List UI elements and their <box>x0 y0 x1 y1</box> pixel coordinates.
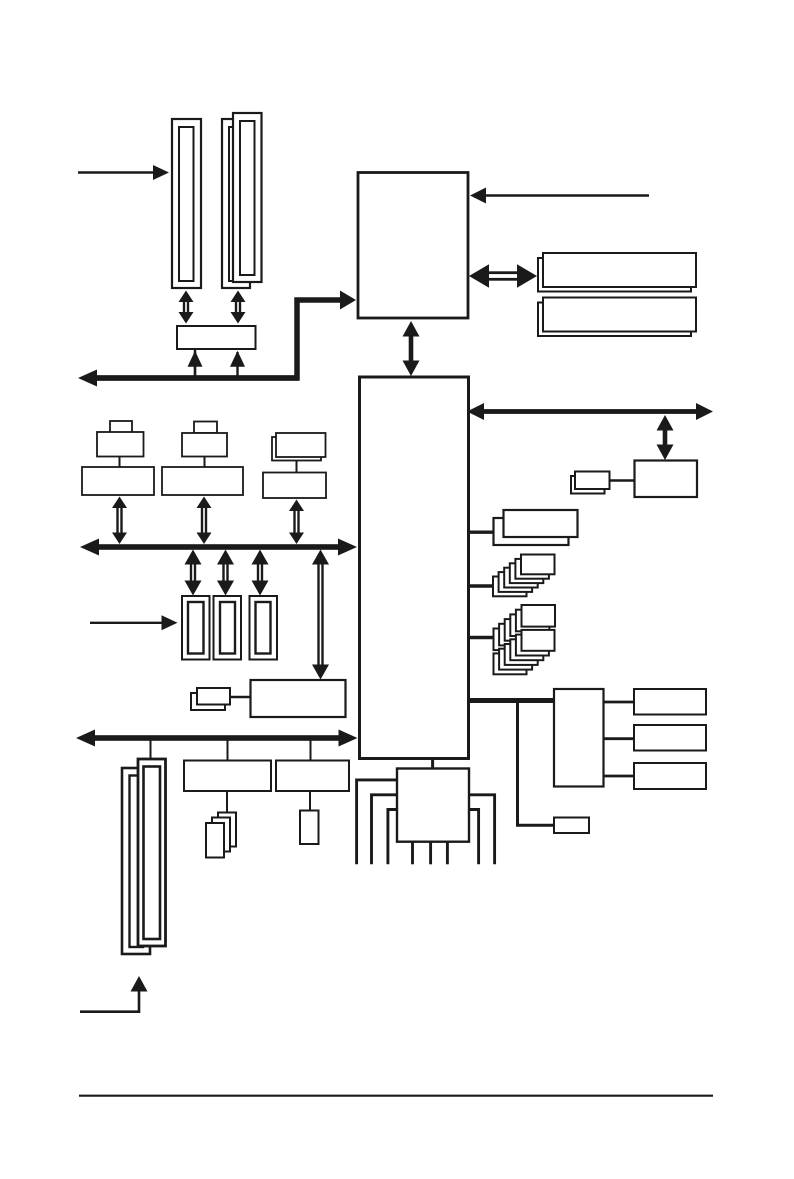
wire: LPC box to right box R3 <box>604 775 636 778</box>
pin leg: super-IO left arm 1 <box>357 780 398 864</box>
box: memory bank 2 <box>543 298 696 332</box>
slot: bottom slot back outer <box>122 768 150 954</box>
arrow: bus1 up to bridge box left (single head) <box>194 352 196 376</box>
arrow: bus2 down to wide box (long double-headed) <box>317 564 323 666</box>
arrow: memory slot 2 to bridge box (double-headed) <box>235 301 241 313</box>
box: memory bank 1 shadow <box>538 258 691 292</box>
box: group3 top <box>276 433 326 457</box>
box: LPC controller (tall narrow box) <box>554 689 604 787</box>
box: memory bank 2 shadow <box>538 303 691 337</box>
box: stack A back <box>494 518 569 545</box>
box: group1 bottom <box>82 467 154 495</box>
pin leg: super-IO bottom pin 2 <box>429 842 432 865</box>
box: wide box below PCI slots <box>251 680 346 717</box>
slot: PCI slot 2 outer <box>214 596 242 660</box>
wire: stem box2 to small connector box <box>309 790 311 811</box>
box: BIOS small box <box>554 818 589 834</box>
box: card stack under box1 - front <box>206 823 224 858</box>
wire: stem bus3 to bottom box2 <box>310 740 312 761</box>
box: small connector under box2 <box>300 811 319 845</box>
box: stack A front <box>504 510 578 537</box>
arrow: CPU to chipset (solid double-headed) <box>409 335 414 363</box>
wire: stem chipset to stack C <box>469 636 495 639</box>
arrow: memory slot 1 to bridge box (double-headed) <box>183 301 189 313</box>
box: memory bridge box below slots <box>177 326 256 349</box>
box: right box R2 <box>634 725 706 751</box>
pin leg: super-IO left arm 3 <box>388 810 398 865</box>
wire: stem chipset to stack A <box>469 531 495 534</box>
slot: PCI slot 1 inner <box>188 602 204 654</box>
wire: stem chipset bottom to super-IO box <box>431 758 434 769</box>
slot: memory slot 2 back inner <box>229 127 244 281</box>
slot: PCI slot 3 outer <box>250 596 278 660</box>
slot: bottom slot front inner <box>144 767 161 940</box>
wire: stem bus3 to bottom box1 <box>227 740 229 761</box>
box: bottom box2 on bus3 <box>276 761 349 792</box>
wire: branch from thick link down to BIOS box <box>518 701 555 825</box>
slot: memory slot 2 front inner <box>240 121 255 275</box>
bus wire: lower peripheral bus (double arrow both ends) <box>92 735 342 741</box>
box: card stack under box1 - back <box>218 813 236 847</box>
box: card stack under box1 - middle <box>212 818 230 852</box>
arrow: bus1 up to bridge box right (single head) <box>236 352 238 376</box>
box: connector pair behind wide box - front <box>197 688 230 705</box>
box: group2 notch <box>194 422 217 434</box>
arrow: bus2 to PCI slot 1 (double-headed) <box>190 564 196 582</box>
bus arrowhead: local bus left end <box>92 375 298 380</box>
arrow: group2 to bus2 (double-headed) <box>201 507 207 534</box>
pin leg: super-IO bottom pin 1 <box>411 842 414 865</box>
box: super-IO chip <box>397 769 469 842</box>
slot: PCI slot 3 inner <box>256 602 271 654</box>
box: group1 top <box>97 432 144 457</box>
pin leg: super-IO left arm 2 <box>372 795 399 865</box>
slot: memory slot 1 outer <box>172 119 201 288</box>
wire: stem bus1 to memory-bridge box left <box>194 349 196 376</box>
bus wire: right-side bus from chipset (double arrow both ends) <box>483 409 697 414</box>
arrow: input arrow to CPU box right side (thin, pointing left) <box>484 194 649 196</box>
wire: connector pair to network box <box>608 479 635 481</box>
box: group3 top shadow <box>272 437 321 461</box>
arrow: bottom elbow pointing up at slot group <box>80 991 139 1012</box>
bus wire: host bus elbow from local bus up into CPU box <box>95 300 341 378</box>
box: network controller box under bus4 <box>635 461 698 498</box>
box: connector pair at network box - back <box>571 476 605 494</box>
arrow: bus4 to network box (solid double-headed) <box>663 429 668 447</box>
slot: bottom slot back inner <box>130 776 144 948</box>
wire: stem bus3 to bottom slot group <box>150 740 152 760</box>
box: CPU (top large box) <box>358 173 468 319</box>
arrow: CPU to memory banks (hollow double-headed horizontal) <box>487 271 519 280</box>
pin leg: super-IO right arm 2 <box>468 810 479 865</box>
wire: connector pair to wide box <box>229 696 251 699</box>
box: connector pair behind wide box - back <box>191 693 225 710</box>
bus wire: middle system bus (double arrow both ends) <box>94 544 342 550</box>
slot: memory slot 2 back outer <box>222 119 250 288</box>
box: bottom box1 on bus3 <box>184 761 271 792</box>
slot: memory slot 1 inner <box>179 127 194 281</box>
arrow: group3 to bus2 (double-headed) <box>293 510 299 534</box>
pin leg: super-IO bottom pin 3 <box>446 842 449 865</box>
slot: PCI slot 1 outer <box>182 596 210 660</box>
box: right box R3 <box>634 763 706 789</box>
wire: stem box1 to card stack <box>226 790 228 813</box>
wire: stem group2 top to bottom box <box>204 456 206 468</box>
arrow: group1 to bus2 (double-headed) <box>116 507 122 534</box>
box: memory bank 1 <box>543 253 696 287</box>
arrow: input arrow to memory slots (thin, pointing right) <box>78 171 155 173</box>
wire: stem group1 top to bottom box <box>119 456 121 468</box>
box: group2 top <box>182 433 227 457</box>
pin leg: super-IO right arm 1 <box>468 795 495 865</box>
box: stack B cascaded USB ports (6 layers) <box>493 577 527 597</box>
wire: LPC box to right box R2 <box>604 737 636 740</box>
slot: bottom slot front outer <box>138 759 166 946</box>
arrow: input arrow to PCI slots (thin, pointing right) <box>90 622 164 624</box>
arrow: bus2 to PCI slot 3 (double-headed) <box>257 564 263 582</box>
bus wire: chipset to LPC controller thick link <box>469 698 555 703</box>
box: right box R1 <box>634 689 706 715</box>
slot: memory slot 2 front outer <box>233 113 262 282</box>
box: group2 bottom <box>162 467 243 495</box>
box: chipset (tall central box) <box>360 377 469 759</box>
box: group1 notch <box>110 421 132 433</box>
wire: LPC box to right box R1 <box>604 701 636 704</box>
box: group3 bottom <box>263 473 326 499</box>
wire: stem group3 top to bottom box <box>296 456 298 473</box>
slot: PCI slot 2 inner <box>220 602 235 654</box>
arrow: bus2 to PCI slot 2 (double-headed) <box>222 564 228 582</box>
footer rule line <box>79 1095 713 1097</box>
wire: stem chipset to stack B <box>469 584 495 587</box>
box: stack C cascaded port pairs (6 layers of 2) <box>494 629 528 651</box>
box: connector pair at network box - front <box>575 472 610 490</box>
